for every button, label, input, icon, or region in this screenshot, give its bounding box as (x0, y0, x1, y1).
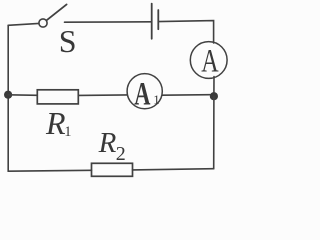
svg-text:1: 1 (64, 124, 71, 140)
switch S lever (open blade) (46, 4, 66, 20)
wire bottom left segment (8, 169, 91, 172)
wire right vertical side (213, 96, 215, 169)
ammeter A1 circle (127, 74, 162, 109)
wire A1 to right node (162, 94, 210, 97)
ammeter A circle U=A (190, 42, 227, 79)
svg-text:R: R (98, 127, 117, 159)
svg-text:A: A (201, 43, 219, 80)
wire top-left to switch (8, 23, 39, 25)
wire switch contact to battery (65, 21, 152, 23)
resistor R2 body (92, 163, 133, 176)
switch S pivot circle (39, 19, 47, 27)
resistor R1 body (37, 90, 78, 104)
svg-text:S: S (59, 23, 77, 59)
svg-text:1: 1 (153, 92, 160, 107)
wire bottom right segment (133, 169, 214, 170)
node right junction dot (210, 92, 218, 100)
svg-text:R: R (45, 105, 66, 141)
svg-text:2: 2 (116, 143, 126, 165)
svg-text:A: A (134, 76, 151, 112)
wire R1 to ammeter A1 (78, 94, 127, 97)
wire battery to top-right corner (158, 21, 213, 43)
node left junction dot (4, 91, 12, 99)
wire left vertical side (7, 25, 9, 171)
battery short plate (157, 10, 159, 29)
battery long plate (151, 4, 153, 39)
wire left node to R1 (8, 94, 37, 97)
wire ammeter A to right node (213, 77, 215, 95)
